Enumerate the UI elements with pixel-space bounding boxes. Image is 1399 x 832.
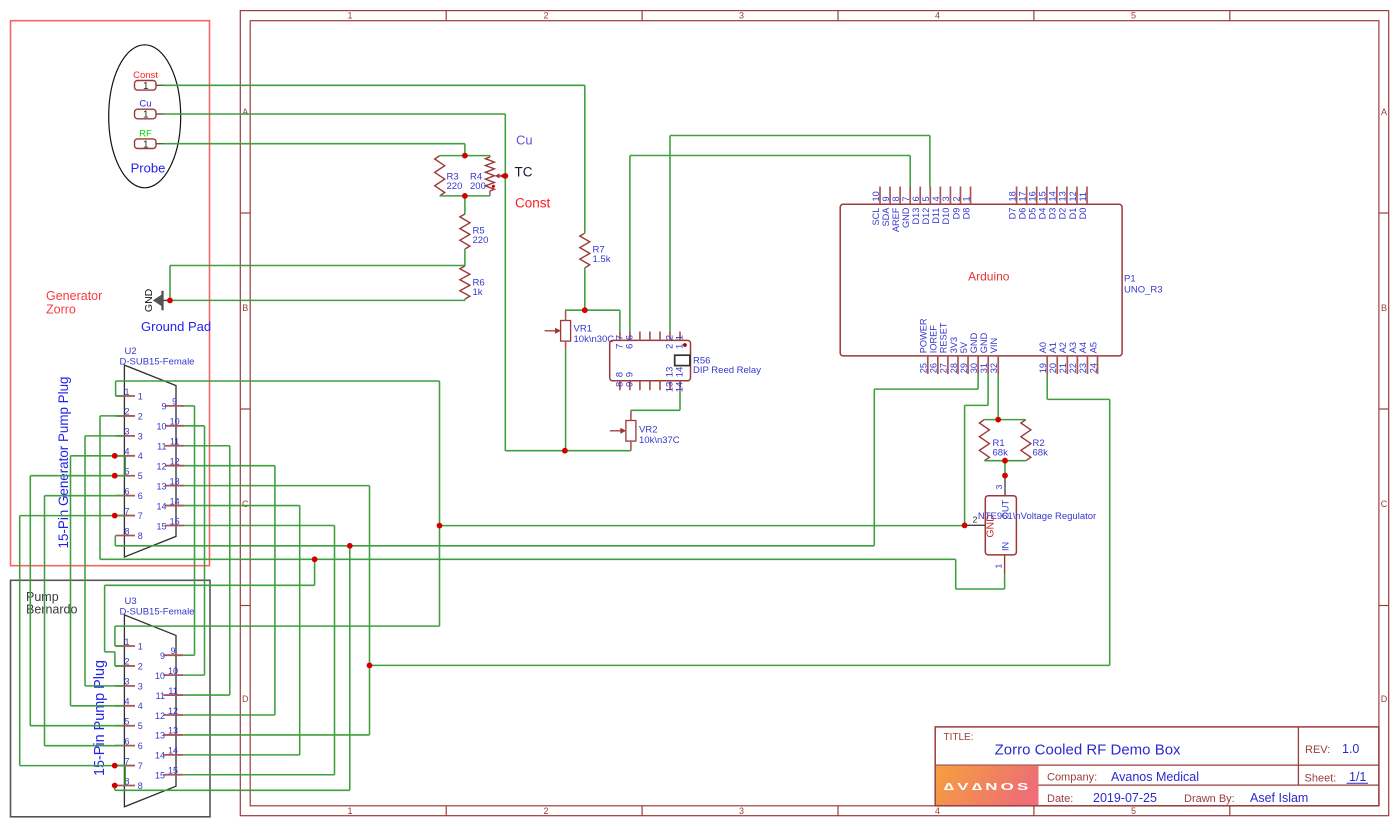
Arduino pin 23 A4	[1078, 342, 1088, 374]
U3 pin 13	[155, 726, 183, 741]
svg-text:7: 7	[124, 506, 129, 516]
U2 pin 4	[116, 447, 143, 462]
svg-text:1: 1	[961, 196, 971, 201]
svg-text:1.0: 1.0	[1342, 742, 1359, 756]
svg-text:30: 30	[969, 363, 979, 373]
svg-text:12: 12	[155, 711, 165, 721]
svg-text:11: 11	[1078, 192, 1088, 202]
svg-text:68k: 68k	[1033, 448, 1049, 459]
U2 pin 6	[116, 486, 143, 501]
svg-text:14: 14	[168, 746, 178, 756]
svg-text:1k: 1k	[473, 287, 483, 298]
wire net pin13	[183, 486, 369, 735]
Arduino pin 8 AREF	[891, 187, 901, 233]
svg-text:Arduino: Arduino	[968, 270, 1010, 284]
wire net pin4	[71, 456, 126, 706]
svg-text:D-SUB15-Female: D-SUB15-Female	[120, 607, 195, 618]
svg-text:2: 2	[138, 411, 143, 421]
svg-text:15: 15	[156, 521, 166, 531]
svg-text:RF: RF	[139, 128, 152, 139]
wire IN net 559 line	[100, 416, 1005, 666]
svg-text:11: 11	[157, 442, 166, 452]
probe outline ellipse	[109, 45, 181, 188]
U2 pin 5	[116, 467, 143, 482]
svg-text:4: 4	[935, 806, 940, 816]
label Probe	[131, 161, 166, 176]
svg-text:8: 8	[138, 781, 143, 791]
svg-text:B: B	[1381, 303, 1387, 313]
svg-text:11: 11	[168, 686, 177, 696]
svg-text:26: 26	[929, 363, 939, 373]
svg-text:14: 14	[170, 496, 180, 506]
svg-text:6: 6	[625, 344, 636, 349]
U3 pin 12	[155, 706, 183, 721]
svg-text:D9: D9	[951, 208, 961, 220]
svg-text:3: 3	[124, 427, 129, 437]
wire net pin3	[85, 436, 124, 686]
Arduino pin 1 D8	[961, 187, 971, 220]
svg-text:D1: D1	[1068, 208, 1078, 220]
wire A0 to pin13 net	[370, 374, 1110, 665]
svg-text:2: 2	[124, 657, 129, 667]
junction at 349.8,545.8	[347, 543, 353, 549]
Arduino UNO_R3 P1 body	[840, 204, 1162, 356]
svg-text:IN: IN	[1001, 542, 1011, 551]
wire net pin11	[183, 446, 230, 695]
Arduino pin 26 IOREF	[929, 325, 939, 374]
U2 pin 15	[156, 516, 184, 531]
svg-text:20: 20	[1048, 363, 1058, 373]
Arduino pin 19 A0	[1038, 342, 1048, 374]
svg-text:4: 4	[138, 701, 143, 711]
svg-text:6: 6	[911, 196, 921, 201]
svg-text:220: 220	[447, 181, 463, 192]
wire relay pin 6 to Arduino GND	[630, 156, 910, 332]
svg-text:Cu: Cu	[516, 133, 533, 148]
svg-text:D-SUB15-Female: D-SUB15-Female	[120, 357, 195, 368]
regulator pin 3 OUT	[994, 476, 1005, 496]
junction at 369.5,665.4	[367, 663, 373, 669]
svg-text:7: 7	[138, 511, 143, 521]
junction at 964.6,525.4	[962, 523, 968, 529]
junction at 114.7,515.6	[112, 513, 118, 519]
svg-text:6: 6	[124, 736, 129, 746]
svg-text:18: 18	[1007, 191, 1017, 201]
wire VR1 top to relay pin 7	[565, 310, 620, 451]
svg-text:11: 11	[170, 437, 179, 447]
svg-text:2: 2	[138, 661, 143, 671]
svg-text:2: 2	[951, 196, 961, 201]
svg-text:C: C	[242, 499, 249, 509]
svg-text:Asef Islam: Asef Islam	[1250, 791, 1308, 805]
svg-text:220: 220	[473, 235, 489, 246]
wire net pin14	[183, 506, 299, 755]
wire net Const to R7	[163, 85, 585, 310]
svg-text:5: 5	[138, 471, 143, 481]
svg-text:5: 5	[1131, 806, 1136, 816]
Arduino pin 10 SCL	[871, 187, 881, 226]
junction at 114.7,765.6	[112, 763, 118, 769]
svg-text:1: 1	[143, 81, 149, 92]
svg-text:12: 12	[170, 456, 180, 466]
Arduino pin 5 D12	[921, 187, 931, 225]
svg-text:A: A	[1381, 107, 1387, 117]
svg-text:7: 7	[901, 196, 911, 201]
svg-text:200: 200	[470, 181, 486, 192]
Arduino pin 21 A2	[1058, 342, 1068, 374]
svg-text:SCL: SCL	[871, 208, 881, 226]
svg-text:10k\n30C: 10k\n30C	[574, 334, 615, 345]
svg-text:5: 5	[921, 196, 931, 201]
svg-text:12: 12	[156, 461, 166, 471]
wire R3 R4 parallel top/bottom	[440, 156, 490, 301]
svg-text:15: 15	[170, 516, 180, 526]
svg-text:29: 29	[959, 363, 969, 373]
svg-text:1: 1	[993, 564, 1003, 569]
svg-text:1: 1	[347, 10, 352, 20]
svg-text:12: 12	[1068, 191, 1078, 201]
junction at 170,300.4	[167, 298, 173, 304]
relay R56 DIP Reed Relay	[610, 340, 761, 380]
svg-text:25: 25	[919, 363, 929, 373]
net label TC	[515, 165, 533, 180]
svg-text:Zorro Cooled RF Demo Box: Zorro Cooled RF Demo Box	[995, 742, 1181, 759]
Arduino pin 12 D1	[1068, 187, 1078, 220]
svg-text:16: 16	[1028, 191, 1038, 201]
U3 pin 1	[115, 637, 143, 652]
R56 pin bottom #2	[639, 381, 641, 390]
wire net pin7	[20, 516, 126, 786]
trimmer resistor R4 200	[470, 156, 505, 196]
Arduino pin 28 3V3	[949, 337, 959, 374]
svg-text:3V3: 3V3	[949, 337, 959, 353]
Arduino pin 17 D6	[1017, 187, 1027, 220]
svg-text:13: 13	[1058, 191, 1068, 201]
svg-text:6: 6	[138, 491, 143, 501]
svg-text:Ground Pad: Ground Pad	[141, 319, 211, 334]
svg-text:TITLE:: TITLE:	[944, 732, 974, 743]
svg-text:NTE961\nVoltage Regulator: NTE961\nVoltage Regulator	[978, 511, 1096, 522]
svg-text:6: 6	[124, 486, 129, 496]
svg-text:28: 28	[949, 363, 959, 373]
svg-text:Probe: Probe	[131, 161, 166, 176]
trimmer potentiometer VR1 10k\n30C	[545, 321, 615, 346]
label 15-Pin Pump Plug	[92, 660, 108, 776]
enclosure box Pump Bernardo	[11, 580, 211, 817]
svg-text:RESET: RESET	[939, 322, 949, 353]
title block	[935, 727, 1379, 806]
U3 pin 8	[115, 776, 143, 791]
svg-text:A5: A5	[1088, 342, 1098, 353]
svg-text:A1: A1	[1048, 342, 1058, 353]
svg-text:5: 5	[1131, 10, 1136, 20]
svg-text:3: 3	[124, 677, 129, 687]
svg-text:3: 3	[138, 431, 143, 441]
Arduino pin 16 D5	[1028, 187, 1038, 220]
svg-text:4: 4	[124, 697, 129, 707]
resistor R1 68k	[979, 420, 1008, 461]
Arduino pin 13 D2	[1058, 187, 1068, 220]
junction at 114.7,455.8	[112, 453, 118, 459]
U2 pin 7	[116, 506, 143, 521]
svg-text:13: 13	[170, 476, 180, 486]
svg-text:AREF: AREF	[891, 207, 901, 232]
wire net pin12	[183, 466, 275, 715]
svg-text:24: 24	[1088, 363, 1098, 373]
junction at 114.7,785.5	[112, 783, 118, 789]
junction at 1005,475.6	[1002, 473, 1008, 479]
svg-text:8: 8	[138, 531, 143, 541]
U2 pin 12	[156, 456, 184, 471]
svg-text:1: 1	[675, 344, 686, 349]
svg-text:Const: Const	[515, 196, 551, 211]
R56 pin bottom #0	[615, 372, 626, 390]
svg-text:3: 3	[994, 485, 1004, 490]
svg-text:3: 3	[941, 196, 951, 201]
U2 pin 8	[116, 526, 143, 541]
svg-text:D5: D5	[1028, 208, 1038, 220]
Arduino pin 9 SDA	[881, 187, 891, 227]
U2 pin 9	[161, 397, 184, 412]
svg-text:Sheet:: Sheet:	[1305, 773, 1337, 785]
U3 pin 11	[156, 686, 184, 701]
wire VIN to R1 R2	[984, 374, 1026, 476]
Arduino pin 14 D3	[1048, 187, 1058, 220]
svg-text:14: 14	[155, 751, 165, 761]
label 15-Pin Generator Pump Plug	[56, 377, 71, 549]
junction at 1005,460.7	[1002, 458, 1008, 464]
U3 pin 4	[115, 697, 143, 712]
wire net pin9	[183, 406, 194, 655]
VR2 pin stubs	[630, 410, 632, 450]
U3 pin 15	[155, 766, 183, 781]
svg-text:14: 14	[1048, 191, 1058, 201]
svg-text:GND: GND	[979, 332, 989, 353]
svg-text:A2: A2	[1058, 342, 1068, 353]
U3 pin 9	[160, 646, 183, 661]
svg-text:11: 11	[156, 691, 165, 701]
svg-text:9: 9	[170, 646, 175, 656]
svg-text:POWER: POWER	[919, 318, 929, 353]
Arduino pin 7 GND	[901, 187, 911, 229]
svg-text:Const: Const	[133, 70, 158, 81]
svg-text:Cu: Cu	[139, 99, 151, 110]
VR1 pin stubs	[565, 310, 567, 349]
svg-text:GND: GND	[969, 332, 979, 353]
R56 pin bottom #5	[665, 367, 676, 393]
svg-text:4: 4	[124, 447, 129, 457]
svg-text:10: 10	[168, 666, 178, 676]
svg-text:13: 13	[155, 731, 165, 741]
svg-text:Date:: Date:	[1047, 793, 1073, 805]
voltage regulator U1 NTE961	[978, 496, 1096, 555]
svg-text:14: 14	[675, 366, 686, 377]
svg-text:3: 3	[739, 10, 744, 20]
svg-text:1: 1	[138, 641, 143, 651]
wire GND net pin30 / U2 pin8 / U3 pin8	[115, 374, 978, 790]
svg-text:9: 9	[625, 372, 636, 377]
Arduino pin 6 D13	[911, 187, 921, 225]
resistor R2 68k	[1021, 420, 1048, 461]
svg-text:1/1: 1/1	[1349, 770, 1366, 784]
svg-text:1.5k: 1.5k	[593, 254, 611, 265]
resistor R5 220	[460, 214, 488, 249]
svg-text:15: 15	[168, 766, 178, 776]
regulator pin 2 GND	[965, 515, 985, 526]
resistor R7 1.5k	[580, 233, 611, 268]
svg-text:14: 14	[156, 501, 166, 511]
svg-text:D3: D3	[1048, 208, 1058, 220]
wire R5 R6 to ground pad	[170, 266, 465, 301]
wire net pin15	[183, 525, 334, 774]
Arduino pin 11 D0	[1078, 187, 1088, 220]
svg-text:15-Pin Generator Pump Plug: 15-Pin Generator Pump Plug	[56, 377, 71, 549]
svg-text:D6: D6	[1017, 208, 1027, 220]
Arduino pin 18 D7	[1007, 187, 1017, 220]
R56 pin top #6	[675, 332, 686, 349]
svg-text:15: 15	[1038, 191, 1048, 201]
U2 pin 13	[156, 476, 184, 491]
svg-text:TC: TC	[515, 165, 533, 180]
svg-text:D13: D13	[911, 208, 921, 225]
svg-text:1: 1	[143, 139, 149, 150]
wire net Cu / TC	[163, 114, 631, 451]
Arduino pin 15 D4	[1038, 187, 1048, 220]
R56 pin top #0	[615, 332, 626, 349]
ground symbol GND (Ground Pad)	[143, 288, 170, 312]
wire net pin6	[45, 496, 124, 746]
U3 pin 3	[115, 677, 143, 692]
Arduino pin 30 GND	[969, 332, 979, 374]
R56 pin top #2	[639, 332, 641, 341]
svg-text:32: 32	[989, 363, 999, 373]
svg-text:1: 1	[124, 387, 129, 397]
U3 pin 7	[115, 756, 143, 771]
svg-text:9: 9	[172, 397, 177, 407]
svg-text:C: C	[1381, 499, 1388, 509]
connector RF pin 1	[135, 128, 164, 150]
svg-text:4: 4	[931, 196, 941, 201]
trimmer potentiometer VR2 10k\n37C	[610, 421, 680, 447]
connector Cu pin 1	[135, 99, 164, 121]
svg-text:D8: D8	[961, 208, 971, 220]
svg-text:2: 2	[973, 515, 978, 525]
svg-text:B: B	[242, 303, 248, 313]
svg-text:5V: 5V	[959, 341, 969, 353]
resistor R6 1k	[460, 266, 485, 299]
svg-text:4: 4	[138, 451, 143, 461]
wire net pin5	[30, 476, 125, 726]
Arduino pin 32 VIN	[989, 338, 999, 374]
svg-text:1: 1	[138, 391, 143, 401]
svg-text:IOREF: IOREF	[929, 325, 939, 353]
svg-text:Zorro: Zorro	[46, 303, 76, 317]
junction at 314.6,559.3	[312, 556, 318, 562]
svg-text:REV:: REV:	[1305, 744, 1330, 756]
svg-text:2019-07-25: 2019-07-25	[1093, 791, 1157, 805]
AVANOS logo	[936, 766, 1039, 805]
U3 pin 2	[115, 657, 143, 672]
svg-text:DIP Reed Relay: DIP Reed Relay	[693, 365, 761, 376]
svg-text:VR2: VR2	[639, 425, 657, 436]
svg-text:6: 6	[138, 741, 143, 751]
svg-text:GND: GND	[143, 288, 155, 312]
label Ground Pad	[141, 319, 211, 334]
R56 pin bottom #6	[675, 366, 686, 392]
wire net pin10	[183, 426, 204, 675]
Arduino pin 4 D11	[931, 187, 941, 224]
svg-text:23: 23	[1078, 363, 1088, 373]
svg-text:2: 2	[124, 407, 129, 417]
regulator pin 1 IN	[993, 555, 1004, 574]
svg-text:P1: P1	[1124, 274, 1136, 285]
svg-text:7: 7	[124, 756, 129, 766]
svg-text:9: 9	[160, 651, 165, 661]
svg-text:9: 9	[161, 402, 166, 412]
junction at 464.9,195.9	[462, 193, 468, 199]
net label Cu	[516, 133, 533, 148]
svg-text:Company:: Company:	[1047, 772, 1097, 784]
R56 pin bottom #1	[625, 372, 636, 390]
U2 pin 3	[116, 427, 143, 442]
Arduino pin 25 POWER	[919, 318, 929, 374]
U2 pin 10	[156, 417, 184, 432]
svg-text:GND: GND	[901, 207, 911, 228]
Arduino pin 31 GND	[979, 332, 989, 374]
svg-text:D: D	[1381, 694, 1388, 704]
svg-text:9: 9	[881, 196, 891, 201]
svg-text:SDA: SDA	[881, 207, 891, 227]
svg-text:D11: D11	[931, 208, 941, 224]
svg-text:A3: A3	[1068, 342, 1078, 353]
R56 pin top #5	[665, 332, 676, 349]
wire relay pin 14 to VR2	[631, 390, 680, 410]
svg-text:2: 2	[543, 10, 548, 20]
svg-text:3: 3	[739, 806, 744, 816]
svg-text:2: 2	[543, 806, 548, 816]
U3 pin 5	[115, 717, 143, 732]
svg-text:1: 1	[124, 637, 129, 647]
svg-text:9: 9	[625, 382, 636, 387]
svg-text:1: 1	[143, 110, 149, 121]
wire relay pin 2 to Arduino D12	[670, 136, 930, 332]
Arduino pin 24 A5	[1088, 342, 1098, 374]
R56 pin top #4	[659, 332, 661, 341]
svg-text:10: 10	[155, 671, 165, 681]
svg-text:10: 10	[170, 417, 180, 427]
svg-text:13: 13	[168, 726, 178, 736]
junction at 505.3,175.9	[502, 173, 508, 179]
svg-text:6: 6	[625, 335, 636, 340]
svg-text:U3: U3	[125, 596, 137, 607]
svg-text:31: 31	[979, 363, 989, 373]
junction at 584.8,310.2	[582, 307, 588, 313]
svg-text:D: D	[242, 694, 249, 704]
R56 pin bottom #4	[659, 381, 661, 390]
Arduino pin 2 D9	[951, 187, 961, 220]
svg-text:D4: D4	[1038, 208, 1048, 220]
svg-text:D0: D0	[1078, 208, 1088, 220]
svg-text:U2: U2	[125, 346, 137, 357]
svg-text:D7: D7	[1007, 208, 1017, 220]
Arduino pin 3 D10	[941, 187, 951, 225]
connector U2 D-SUB15-Female	[120, 346, 195, 557]
U3 pin 14	[155, 746, 183, 761]
svg-text:3: 3	[138, 681, 143, 691]
svg-text:A4: A4	[1078, 342, 1088, 353]
wire net RF	[163, 144, 465, 156]
svg-text:Drawn By:: Drawn By:	[1184, 793, 1235, 805]
